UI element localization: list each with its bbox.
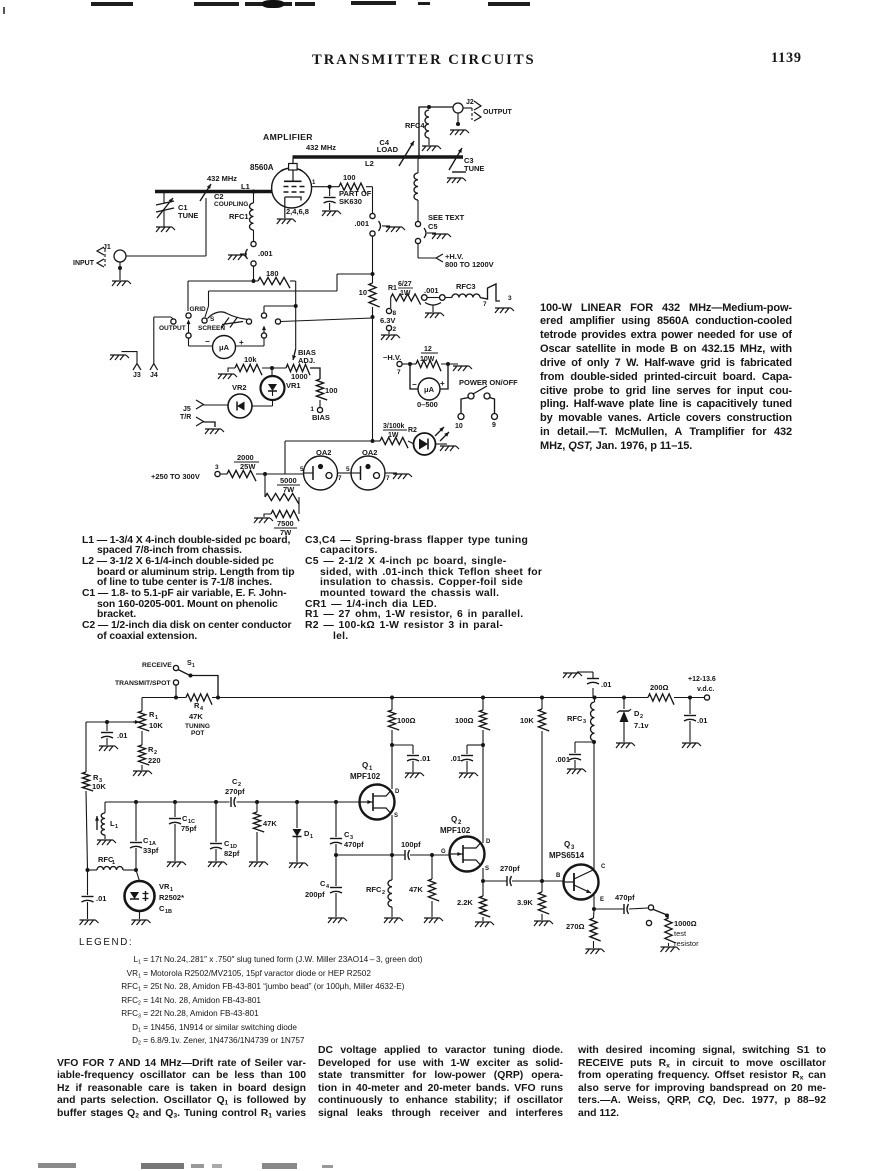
svg-text:−: − xyxy=(412,380,417,389)
svg-text:RFC: RFC xyxy=(567,714,583,723)
svg-text:100: 100 xyxy=(325,386,338,395)
svg-text:1: 1 xyxy=(115,824,118,830)
svg-text:470pf: 470pf xyxy=(615,893,635,902)
svg-text:Q: Q xyxy=(451,815,457,824)
svg-text:200Ω: 200Ω xyxy=(650,683,669,692)
svg-text:180: 180 xyxy=(266,269,279,278)
svg-text:POT: POT xyxy=(191,730,204,737)
svg-text:10K: 10K xyxy=(520,716,534,725)
svg-text:6.3V: 6.3V xyxy=(380,316,395,325)
svg-text:G: G xyxy=(441,849,446,855)
svg-text:TUNING: TUNING xyxy=(185,723,210,730)
svg-text:J3: J3 xyxy=(133,372,141,379)
svg-text:J4: J4 xyxy=(150,372,158,379)
svg-text:v.d.c.: v.d.c. xyxy=(697,686,714,693)
svg-text:7: 7 xyxy=(338,475,342,482)
svg-text:75pf: 75pf xyxy=(181,824,197,833)
svg-text:.01: .01 xyxy=(117,731,127,740)
svg-text:1: 1 xyxy=(312,180,316,186)
svg-text:TUNE: TUNE xyxy=(178,211,198,220)
svg-text:C2: C2 xyxy=(214,192,224,201)
svg-text:VR: VR xyxy=(159,882,170,891)
svg-text:2: 2 xyxy=(640,714,643,720)
svg-text:POWER ON/OFF: POWER ON/OFF xyxy=(459,378,518,387)
svg-text:BIAS: BIAS xyxy=(312,413,330,422)
svg-text:33pf: 33pf xyxy=(143,846,159,855)
svg-text:9: 9 xyxy=(492,422,496,429)
svg-text:−: − xyxy=(205,337,210,346)
svg-text:.01: .01 xyxy=(601,680,611,689)
svg-text:R2502*: R2502* xyxy=(159,893,184,902)
svg-text:C5: C5 xyxy=(428,222,438,231)
svg-text:200pf: 200pf xyxy=(305,890,325,899)
svg-text:GRID: GRID xyxy=(190,306,207,313)
svg-text:7: 7 xyxy=(397,369,401,376)
svg-text:47K: 47K xyxy=(263,819,277,828)
svg-text:SEE TEXT: SEE TEXT xyxy=(428,213,465,222)
svg-text:7: 7 xyxy=(483,301,487,308)
svg-text:47K: 47K xyxy=(409,885,423,894)
svg-text:100Ω: 100Ω xyxy=(455,716,474,725)
svg-text:.01: .01 xyxy=(451,754,461,763)
svg-text:SCREEN: SCREEN xyxy=(198,325,225,332)
svg-text:B: B xyxy=(556,873,561,879)
svg-text:RFC4: RFC4 xyxy=(405,121,425,130)
svg-text:10: 10 xyxy=(359,288,367,297)
svg-text:10k: 10k xyxy=(244,355,257,364)
svg-text:47K: 47K xyxy=(189,712,203,721)
svg-text:Q: Q xyxy=(362,761,368,770)
svg-text:TRANSMIT/SPOT: TRANSMIT/SPOT xyxy=(115,680,171,687)
svg-text:1000Ω: 1000Ω xyxy=(674,919,697,928)
svg-text:R2: R2 xyxy=(408,427,417,434)
svg-text:6/27: 6/27 xyxy=(398,281,412,288)
svg-text:1: 1 xyxy=(112,860,115,866)
svg-text:7.1v: 7.1v xyxy=(634,721,649,730)
svg-text:.01: .01 xyxy=(420,754,430,763)
svg-text:OA2: OA2 xyxy=(316,448,331,457)
svg-text:100: 100 xyxy=(343,173,356,182)
svg-text:test: test xyxy=(674,929,687,938)
svg-text:RFC: RFC xyxy=(366,885,382,894)
svg-text:μA: μA xyxy=(219,343,230,352)
svg-text:L2: L2 xyxy=(365,159,374,168)
svg-text:RFC3: RFC3 xyxy=(456,282,476,291)
svg-text:S: S xyxy=(210,316,215,323)
svg-text:L1: L1 xyxy=(241,182,250,191)
svg-text:2: 2 xyxy=(393,326,397,333)
svg-text:μA: μA xyxy=(424,385,435,394)
svg-text:J2: J2 xyxy=(466,99,474,106)
svg-text:TUNE: TUNE xyxy=(464,164,484,173)
svg-text:C: C xyxy=(601,864,606,870)
svg-text:10W: 10W xyxy=(420,356,435,363)
svg-text:MPF102: MPF102 xyxy=(440,826,471,835)
svg-text:R1: R1 xyxy=(388,285,397,292)
svg-text:RECEIVE: RECEIVE xyxy=(142,662,172,669)
svg-text:MPS6514: MPS6514 xyxy=(549,851,585,860)
svg-text:5000: 5000 xyxy=(280,476,297,485)
svg-text:.001: .001 xyxy=(424,286,439,295)
svg-text:COUPLING: COUPLING xyxy=(214,201,248,208)
svg-text:RFC1: RFC1 xyxy=(229,212,249,221)
svg-text:82pf: 82pf xyxy=(224,849,240,858)
svg-text:220: 220 xyxy=(148,756,161,765)
svg-text:3.9K: 3.9K xyxy=(517,898,533,907)
svg-text:3: 3 xyxy=(215,464,219,471)
svg-text:D: D xyxy=(395,789,400,795)
svg-text:800 TO 1200V: 800 TO 1200V xyxy=(445,260,494,269)
svg-text:4: 4 xyxy=(326,884,330,890)
svg-text:5: 5 xyxy=(300,466,304,473)
svg-text:7500: 7500 xyxy=(277,519,294,528)
svg-text:7W: 7W xyxy=(283,485,295,494)
svg-text:MPF102: MPF102 xyxy=(350,772,381,781)
svg-text:5: 5 xyxy=(346,466,350,473)
svg-text:10K: 10K xyxy=(149,721,163,730)
svg-text:2.2K: 2.2K xyxy=(457,898,473,907)
svg-text:1B: 1B xyxy=(165,909,172,915)
svg-text:VR1: VR1 xyxy=(286,381,301,390)
svg-text:3/100k: 3/100k xyxy=(383,423,405,430)
svg-text:3: 3 xyxy=(508,295,512,302)
svg-text:270pf: 270pf xyxy=(500,864,520,873)
svg-text:0–500: 0–500 xyxy=(417,400,438,409)
svg-text:100pf: 100pf xyxy=(401,840,421,849)
svg-text:1W: 1W xyxy=(388,432,399,439)
svg-text:ADJ.: ADJ. xyxy=(298,356,315,365)
svg-text:470pf: 470pf xyxy=(344,840,364,849)
svg-text:270Ω: 270Ω xyxy=(566,922,585,931)
svg-text:LOAD: LOAD xyxy=(377,145,399,154)
svg-text:12: 12 xyxy=(424,346,432,353)
svg-text:SK630: SK630 xyxy=(339,197,362,206)
svg-text:+12-13.6: +12-13.6 xyxy=(688,676,716,683)
svg-text:2000: 2000 xyxy=(237,453,254,462)
svg-text:2: 2 xyxy=(382,890,385,896)
svg-text:+: + xyxy=(440,379,445,388)
svg-text:432 MHz: 432 MHz xyxy=(306,143,336,152)
svg-text:INPUT: INPUT xyxy=(73,260,95,267)
svg-text:D: D xyxy=(486,839,491,845)
svg-text:Q: Q xyxy=(564,840,570,849)
svg-text:E: E xyxy=(600,897,604,903)
svg-text:1: 1 xyxy=(192,663,195,669)
svg-text:10K: 10K xyxy=(92,782,106,791)
svg-text:S: S xyxy=(394,813,398,819)
svg-text:8560A: 8560A xyxy=(250,163,274,172)
svg-text:OUTPUT: OUTPUT xyxy=(483,109,513,116)
svg-text:OA2: OA2 xyxy=(362,448,377,457)
svg-text:AMPLIFIER: AMPLIFIER xyxy=(263,132,313,142)
svg-text:.001: .001 xyxy=(354,219,369,228)
svg-text:.01: .01 xyxy=(697,716,707,725)
svg-text:VR2: VR2 xyxy=(232,383,247,392)
svg-text:−H.V.: −H.V. xyxy=(383,353,401,362)
svg-text:432 MHz: 432 MHz xyxy=(207,174,237,183)
svg-text:1: 1 xyxy=(310,834,313,840)
svg-text:7: 7 xyxy=(386,475,390,482)
svg-text:OUTPUT: OUTPUT xyxy=(159,325,186,332)
svg-text:100Ω: 100Ω xyxy=(397,716,416,725)
svg-text:25W: 25W xyxy=(240,462,256,471)
svg-text:270pf: 270pf xyxy=(225,787,245,796)
svg-text:+250 TO 300V: +250 TO 300V xyxy=(151,472,200,481)
svg-text:3: 3 xyxy=(583,719,586,725)
svg-text:J5: J5 xyxy=(183,406,191,413)
svg-text:2,4,6,8: 2,4,6,8 xyxy=(286,207,309,216)
svg-text:10: 10 xyxy=(455,423,463,430)
svg-text:S: S xyxy=(485,866,489,872)
svg-text:resistor: resistor xyxy=(674,939,699,948)
svg-text:T/R: T/R xyxy=(180,414,191,421)
svg-text:.001: .001 xyxy=(258,249,273,258)
svg-text:.01: .01 xyxy=(96,894,106,903)
svg-text:1000: 1000 xyxy=(291,372,308,381)
svg-text:1: 1 xyxy=(310,406,314,413)
svg-text:.001: .001 xyxy=(555,755,570,764)
